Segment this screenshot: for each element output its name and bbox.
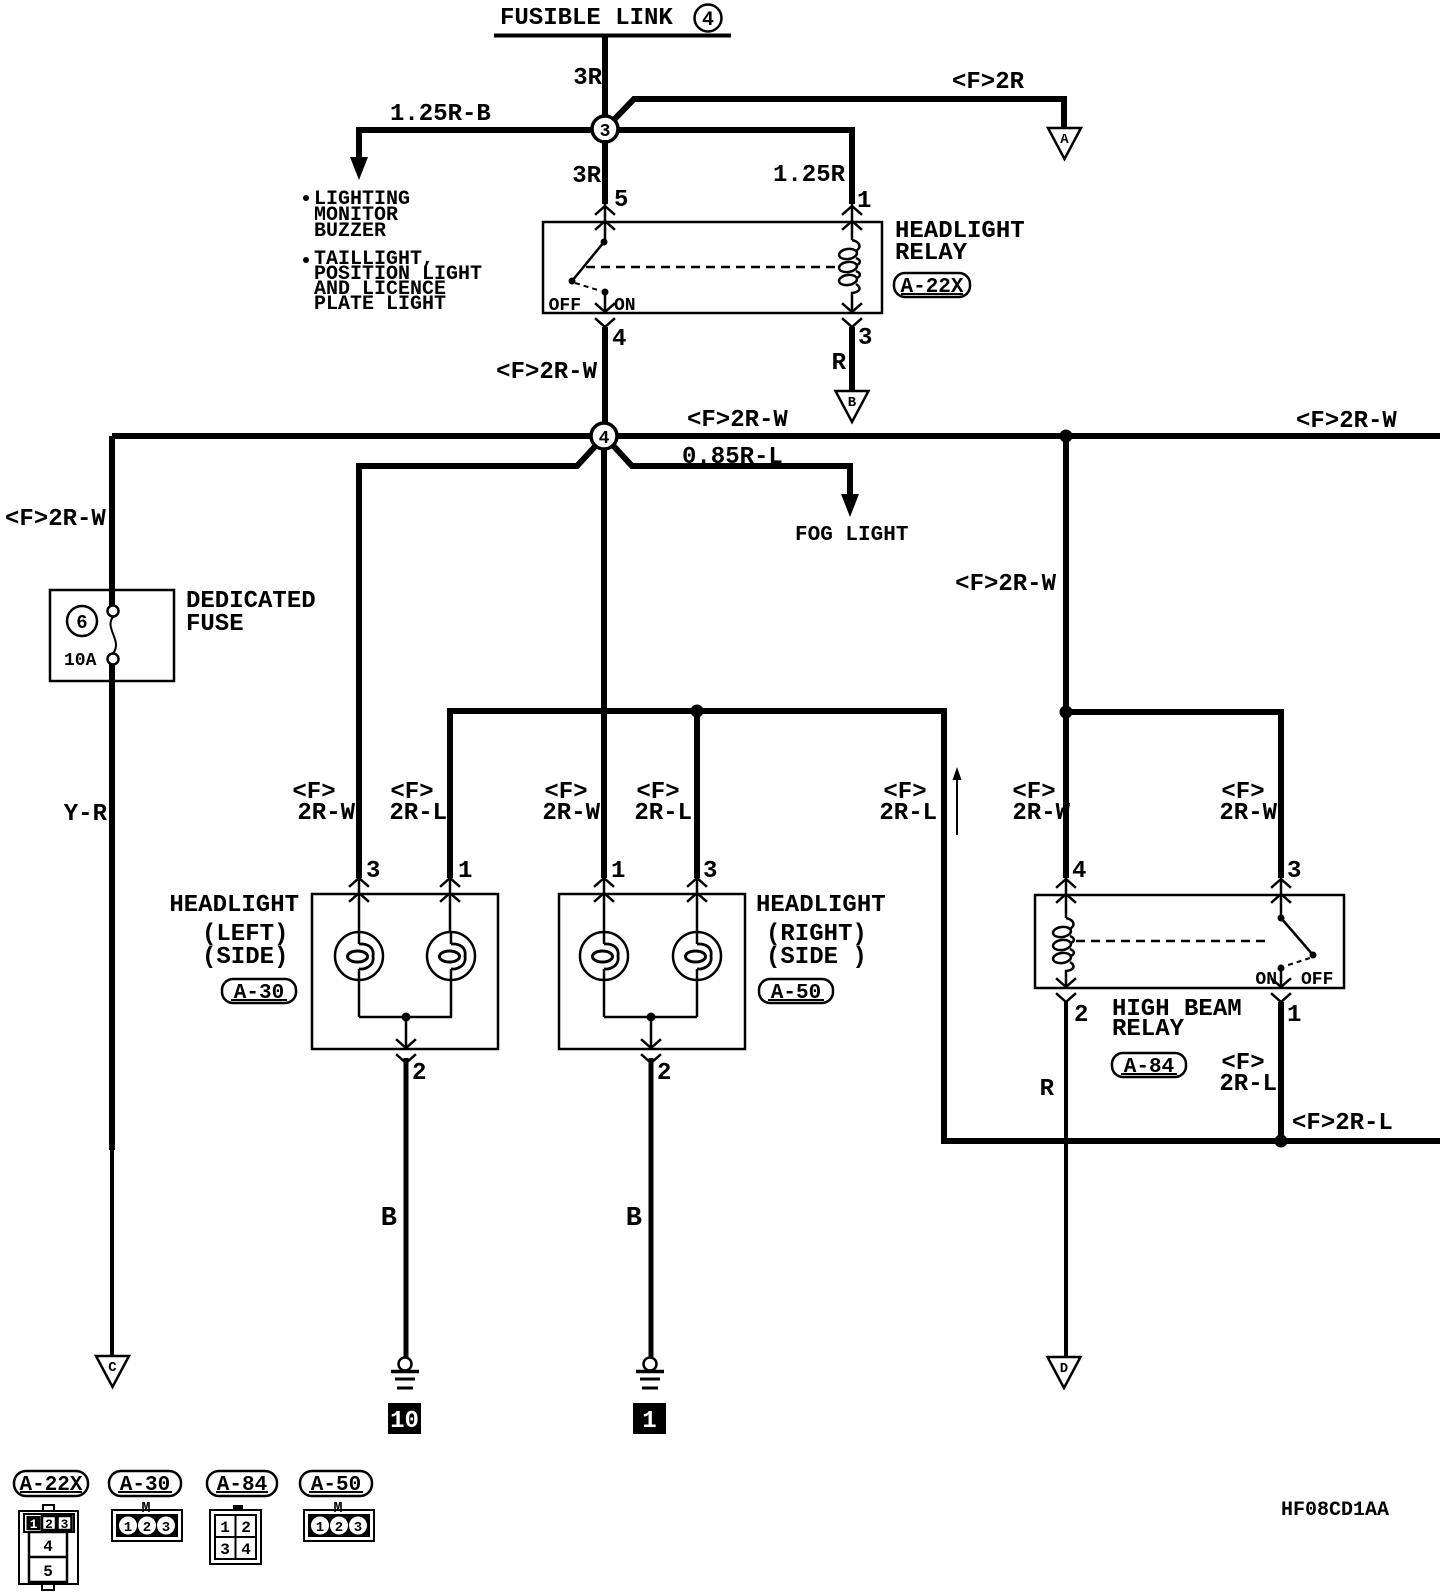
- svg-text:3: 3: [858, 325, 872, 352]
- svg-text:OFF: OFF: [549, 296, 581, 316]
- high beam relay dashed link: [1076, 940, 1270, 943]
- pin 2 right headlight: [642, 1040, 671, 1087]
- label F 2R-W at relay pin 4: [1012, 779, 1070, 827]
- connector code A-22X capsule: [894, 273, 970, 299]
- svg-text:<F>2R-W: <F>2R-W: [5, 506, 106, 533]
- high beam relay switch: [1278, 878, 1317, 988]
- svg-text:<F>2R-L: <F>2R-L: [1292, 1110, 1393, 1137]
- wire main horizontal 2R-W bus: [112, 433, 1440, 439]
- connector code A-84 capsule: [1112, 1053, 1186, 1079]
- headlight relay coil: [838, 240, 859, 313]
- label HEADLIGHT LEFT SIDE: [169, 892, 299, 971]
- svg-text:A-84: A-84: [1124, 1056, 1174, 1079]
- svg-text:2: 2: [412, 1060, 426, 1087]
- svg-text:2: 2: [335, 1520, 343, 1536]
- label HEADLIGHT RELAY: [895, 218, 1025, 267]
- svg-text:B: B: [848, 395, 857, 411]
- node 4: [591, 423, 617, 449]
- label F 2R-L at right headlight pin 3: [634, 779, 692, 827]
- connector triangle B: [836, 391, 869, 422]
- wire right headlight to ground: [649, 1058, 654, 1357]
- fuse F6 element: [108, 606, 119, 665]
- svg-text:3: 3: [703, 858, 717, 885]
- ground right: [636, 1358, 664, 1389]
- svg-text:3: 3: [600, 122, 611, 142]
- svg-text:2: 2: [143, 1520, 151, 1536]
- label HIGH BEAM RELAY: [1112, 996, 1242, 1043]
- ground left: [391, 1358, 419, 1389]
- svg-text:PLATE LIGHT: PLATE LIGHT: [314, 293, 446, 316]
- svg-text:1: 1: [220, 1519, 230, 1537]
- svg-text:D: D: [1060, 1361, 1068, 1377]
- pin 3 right headlight: [688, 858, 717, 901]
- pin 5: [596, 187, 628, 229]
- pin 3 left headlight: [350, 858, 380, 901]
- svg-text:2R-L: 2R-L: [634, 800, 692, 827]
- junction dot high beam relay branch: [1060, 706, 1073, 719]
- svg-text:0.85R-L: 0.85R-L: [682, 444, 783, 471]
- bulb low beam right: [580, 932, 628, 1017]
- svg-text:A-50: A-50: [311, 1474, 361, 1497]
- svg-text:2R-L: 2R-L: [879, 800, 937, 827]
- pin 2 left headlight: [397, 1040, 426, 1087]
- junction dot 2R-L to right headlight pin 3: [691, 705, 704, 718]
- label F 2R-W at right headlight pin 1: [542, 779, 600, 827]
- svg-text:2: 2: [1074, 1002, 1088, 1029]
- svg-text:4: 4: [599, 429, 610, 449]
- label F 2R-W at relay pin 3: [1219, 779, 1277, 827]
- svg-text:HF08CD1AA: HF08CD1AA: [1281, 1499, 1389, 1522]
- svg-text:A-50: A-50: [771, 982, 821, 1005]
- svg-text:A-30: A-30: [234, 982, 284, 1005]
- svg-text:5: 5: [614, 187, 628, 214]
- label F 2R-L at left headlight pin 1: [389, 779, 447, 827]
- svg-text:10: 10: [390, 1408, 419, 1435]
- svg-text:C: C: [108, 1360, 117, 1376]
- wire to pin 2 left: [405, 1017, 408, 1049]
- label HEADLIGHT RIGHT SIDE: [756, 892, 886, 971]
- wire 1.25R-B branch: [359, 130, 598, 160]
- svg-text:A-22X: A-22X: [900, 276, 963, 299]
- svg-text:A-22X: A-22X: [19, 1474, 82, 1497]
- svg-text:1.25R: 1.25R: [773, 162, 846, 189]
- connector code A-30 capsule bottom: [109, 1471, 181, 1497]
- svg-text:3R: 3R: [572, 163, 601, 190]
- wire fusible link to node 3: [602, 36, 608, 129]
- headlight relay dashed link: [586, 266, 840, 269]
- connector code A-22X capsule bottom: [14, 1471, 88, 1497]
- wire node 3 to 2R branch (diagonal up right): [607, 99, 1064, 128]
- svg-text:FOG LIGHT: FOG LIGHT: [795, 524, 908, 547]
- svg-text:4: 4: [702, 9, 714, 32]
- bulb high beam left: [427, 932, 475, 1017]
- wire 2R-L bottom bus: [941, 1138, 1440, 1144]
- pin 4 high beam relay: [1057, 858, 1086, 902]
- svg-text:3: 3: [366, 858, 380, 885]
- svg-text:1: 1: [611, 858, 625, 885]
- wire relay pin 2 to connector D: [1064, 1002, 1068, 1357]
- wire fog light branch: [609, 441, 850, 497]
- pin 4: [596, 304, 626, 353]
- svg-text:3: 3: [1287, 858, 1301, 885]
- svg-text:<F>2R-W: <F>2R-W: [1296, 408, 1397, 435]
- arrow to lighting monitor buzzer: [350, 157, 368, 180]
- svg-text:2: 2: [45, 1517, 53, 1532]
- pin 3 high beam relay: [1272, 858, 1301, 902]
- svg-text:1: 1: [642, 1408, 656, 1435]
- svg-text:RELAY: RELAY: [1112, 1016, 1185, 1043]
- high beam relay box U2: [1035, 895, 1344, 988]
- wire node 3 to relay pin 5: [602, 140, 608, 204]
- connector triangle C: [96, 1356, 129, 1387]
- svg-text:2R-L: 2R-L: [1219, 1071, 1277, 1098]
- svg-text:1: 1: [458, 858, 472, 885]
- svg-text:1.25R-B: 1.25R-B: [390, 101, 491, 128]
- svg-text:2R-W: 2R-W: [1012, 800, 1070, 827]
- svg-text:1: 1: [1287, 1002, 1301, 1029]
- svg-text:2R-L: 2R-L: [389, 800, 447, 827]
- svg-text:4: 4: [612, 326, 626, 353]
- connector A-50 pin view: [304, 1500, 374, 1541]
- svg-text:2R-W: 2R-W: [542, 800, 600, 827]
- wire bulbs common right: [604, 1016, 697, 1019]
- label F 2R-W at left headlight pin 3: [292, 779, 355, 827]
- svg-text:RELAY: RELAY: [895, 240, 968, 267]
- headlight relay box U1: [543, 222, 882, 313]
- svg-text:(SIDE ): (SIDE ): [766, 944, 867, 971]
- note taillight position light licence plate light: [303, 248, 482, 316]
- svg-text:Y-R: Y-R: [64, 801, 108, 828]
- svg-text:2R-W: 2R-W: [297, 800, 355, 827]
- connector A-30 pin view: [112, 1500, 182, 1541]
- svg-text:<F>2R-W: <F>2R-W: [496, 359, 597, 386]
- label FUSIBLE LINK: [494, 5, 731, 36]
- wire left branch down to dedicated fuse: [109, 436, 115, 606]
- svg-text:HEADLIGHT: HEADLIGHT: [169, 892, 299, 919]
- junction dot 2R-L bus: [1275, 1135, 1288, 1148]
- svg-text:6: 6: [76, 612, 87, 634]
- label DEDICATED FUSE: [186, 588, 316, 638]
- connector triangle D: [1048, 1357, 1081, 1388]
- pin 1: [843, 188, 871, 229]
- connector A-84 pin view: [210, 1505, 261, 1564]
- label F 2R-L at trunk: [879, 779, 937, 827]
- svg-text:FUSE: FUSE: [186, 611, 244, 638]
- svg-text:3: 3: [162, 1520, 170, 1536]
- headlight right box A-50: [559, 894, 745, 1049]
- wire 2R-W feed down right side: [1063, 436, 1069, 878]
- svg-text:R: R: [1040, 1076, 1055, 1103]
- svg-text:HEADLIGHT: HEADLIGHT: [756, 892, 886, 919]
- wire relay pin 3 to connector B: [849, 327, 855, 391]
- ground number 10: [388, 1403, 421, 1435]
- bulb low beam left: [335, 932, 383, 1017]
- wire relay pin 4 to node 4: [602, 327, 608, 430]
- pin 1 left headlight: [441, 858, 472, 901]
- dedicated fuse box: [50, 590, 174, 681]
- connector code A-50 capsule: [759, 979, 833, 1005]
- svg-text:3R: 3R: [573, 65, 602, 92]
- svg-text:FUSIBLE LINK: FUSIBLE LINK: [500, 5, 673, 32]
- arrow to fog light: [841, 494, 859, 517]
- svg-text:B: B: [626, 1204, 642, 1234]
- svg-text:R: R: [832, 350, 847, 377]
- high beam relay coil: [1052, 878, 1073, 988]
- note lighting monitor buzzer: [303, 188, 410, 243]
- wire relay pin 1 to 2R-L bus: [1278, 1002, 1284, 1141]
- svg-text:<F>2R-W: <F>2R-W: [687, 407, 788, 434]
- svg-text:2: 2: [657, 1060, 671, 1087]
- svg-text:10A: 10A: [64, 651, 97, 671]
- junction dot right bulbs: [647, 1013, 656, 1022]
- pin 3: [843, 304, 872, 352]
- headlight relay switch: [569, 204, 609, 313]
- connector triangle A: [1048, 128, 1081, 159]
- connector code A-84 capsule bottom: [207, 1471, 277, 1497]
- svg-text:A: A: [1060, 132, 1069, 148]
- wire node 3 to relay pin 1: [611, 130, 852, 204]
- svg-text:B: B: [381, 1204, 397, 1234]
- svg-text:A-30: A-30: [120, 1474, 170, 1497]
- svg-text:2: 2: [241, 1519, 251, 1537]
- svg-text:BUZZER: BUZZER: [314, 220, 386, 243]
- node 3: [592, 116, 618, 142]
- svg-text:4: 4: [241, 1541, 251, 1559]
- wire left headlight to ground: [404, 1058, 409, 1357]
- wire to pin 2 right: [650, 1017, 653, 1049]
- pin 2 high beam relay: [1057, 979, 1088, 1029]
- svg-text:1: 1: [124, 1520, 132, 1536]
- connector A-22X pin view: [19, 1505, 78, 1590]
- junction dot left bulbs: [402, 1013, 411, 1022]
- svg-text:4: 4: [1072, 858, 1086, 885]
- svg-text:1: 1: [30, 1517, 38, 1532]
- wire node 4 down to right headlight pin 1: [601, 443, 607, 878]
- pin 1 high beam relay: [1272, 979, 1301, 1029]
- svg-text:A-84: A-84: [217, 1474, 267, 1497]
- svg-text:2R-W: 2R-W: [1219, 800, 1277, 827]
- svg-text:4: 4: [43, 1538, 53, 1556]
- connector code A-30 capsule: [222, 979, 296, 1005]
- bulb high beam right: [673, 932, 721, 1017]
- wire node 4 to left headlight branch: [359, 441, 600, 878]
- svg-text:5: 5: [43, 1563, 53, 1581]
- svg-text:3: 3: [220, 1541, 230, 1559]
- fuse number 6: [67, 606, 97, 636]
- wire junction to right headlight pin 3: [694, 711, 700, 878]
- svg-text:(SIDE): (SIDE): [202, 944, 288, 971]
- wire 2R-L trunk (left corner, horizontal, right corner down): [450, 711, 944, 1141]
- connector code A-50 capsule bottom: [300, 1471, 372, 1497]
- svg-text:OFF: OFF: [1301, 970, 1333, 990]
- ground number 1: [633, 1403, 666, 1435]
- junction dot 2R-W bus to high beam feed: [1060, 430, 1073, 443]
- svg-text:1: 1: [316, 1520, 324, 1536]
- svg-text:<F>2R: <F>2R: [952, 69, 1025, 96]
- svg-text:ON: ON: [614, 296, 636, 316]
- wire fuse to connector C: [109, 664, 115, 1150]
- wire bulbs common left: [359, 1016, 452, 1019]
- wire branch to relay pin 3: [1066, 712, 1281, 878]
- svg-text:3: 3: [354, 1520, 362, 1536]
- pin 1 right headlight: [595, 858, 625, 901]
- svg-text:<F>2R-W: <F>2R-W: [955, 571, 1056, 598]
- svg-text:3: 3: [61, 1517, 69, 1532]
- current direction arrow: [953, 767, 962, 835]
- headlight left box A-30: [312, 894, 498, 1049]
- label F 2R-L at relay pin 1: [1219, 1050, 1277, 1098]
